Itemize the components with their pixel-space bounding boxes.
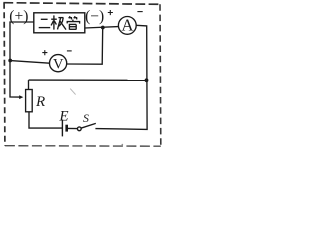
svg-text:R: R xyxy=(35,94,45,110)
svg-text:E: E xyxy=(58,108,68,124)
svg-text:S: S xyxy=(83,111,89,125)
svg-text:V: V xyxy=(53,56,64,72)
svg-text:(−): (−) xyxy=(85,8,104,25)
svg-text:(+): (+) xyxy=(9,8,28,25)
svg-text:A: A xyxy=(121,16,133,35)
